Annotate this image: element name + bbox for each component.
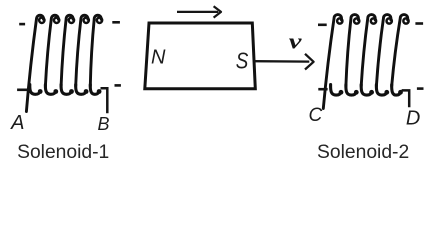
- svg-text:B: B: [98, 114, 110, 134]
- svg-text:C: C: [309, 105, 323, 126]
- svg-text:S: S: [236, 47, 249, 74]
- svg-text:Solenoid-2: Solenoid-2: [317, 142, 409, 162]
- svg-text:D: D: [406, 108, 420, 130]
- svg-text:A: A: [10, 112, 24, 134]
- svg-text:v: v: [289, 29, 302, 54]
- svg-text:N: N: [151, 47, 166, 69]
- svg-text:Solenoid-1: Solenoid-1: [17, 142, 109, 162]
